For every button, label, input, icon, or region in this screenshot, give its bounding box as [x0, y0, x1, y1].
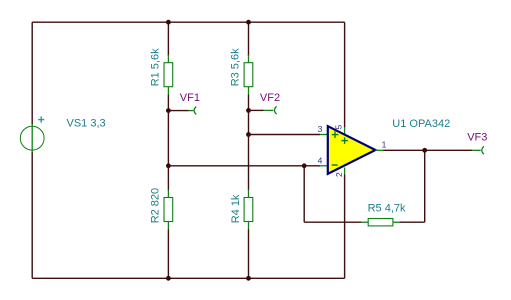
probe VF1 lead [189, 110, 194, 112]
probe VF2 lead [264, 109, 274, 111]
wire feedback bottom to R5 [304, 221, 361, 223]
resistor R4 [244, 190, 253, 230]
wire inverting input (pin 4) [168, 165, 320, 167]
svg-text:VF2: VF2 [260, 92, 280, 104]
wire feedback vertical [303, 166, 305, 222]
wire node VF1 down to inverting tap [167, 111, 169, 166]
op-amp pin 3 lead [320, 134, 328, 136]
wire R2 bottom to bottom rail [167, 230, 169, 279]
svg-text:R2 820: R2 820 [150, 188, 162, 223]
probe VF2 wire [249, 109, 264, 111]
wire negative supply (pin 2) [344, 175, 346, 279]
wire bottom rail [32, 277, 344, 279]
wire node VF2 down to noninverting tap [248, 110, 250, 134]
probe VF1 tip [194, 107, 196, 115]
wire left rail lower [31, 152, 33, 278]
VS1 plus polarity mark [38, 117, 44, 123]
probe VF3 lead [472, 149, 481, 151]
wire tap to R2 [167, 166, 169, 190]
wire R1 bottom to node VF1 [167, 95, 169, 111]
wire left rail upper [31, 22, 33, 124]
op-amp pin 5 lead [344, 127, 346, 136]
svg-text:R4 1k: R4 1k [230, 194, 242, 223]
probe VF2 tip [275, 106, 277, 114]
op-amp pin 4 lead [320, 165, 328, 167]
wire R4 bottom to bottom rail [248, 230, 250, 279]
op-amp U1 [328, 126, 376, 174]
node VF2 junction [246, 108, 251, 113]
probe VF3 tip [482, 146, 484, 154]
wire R5 to output riser [400, 221, 425, 223]
wire R1 branch top [167, 22, 169, 56]
svg-text:R3 5,6k: R3 5,6k [230, 48, 242, 86]
svg-text:4: 4 [318, 155, 323, 165]
wire output riser [424, 150, 426, 222]
svg-text:VS1 3,3: VS1 3,3 [67, 118, 106, 130]
wire noninverting input (pin 3) [249, 134, 321, 136]
resistor R3 [244, 55, 253, 95]
junction feedback tap [302, 163, 307, 168]
svg-text:1: 1 [382, 139, 387, 149]
wire tap to R4 [248, 135, 250, 191]
junction R3 top rail [246, 20, 251, 25]
node VF1 junction [166, 108, 171, 113]
wire R3 bottom to node VF2 [248, 95, 250, 111]
op-amp output lead (pin 1) [375, 149, 383, 151]
junction R4 bottom rail [246, 276, 251, 281]
op-amp supply plus mark [341, 137, 348, 144]
svg-text:VF3: VF3 [467, 132, 487, 144]
op-amp noninverting plus mark [332, 131, 339, 138]
svg-text:5: 5 [334, 125, 344, 130]
junction R2 bottom rail [166, 276, 171, 281]
resistor R5 [361, 219, 400, 226]
resistor R1 [164, 55, 173, 95]
junction at inverting tap [166, 163, 171, 168]
junction at noninverting tap [246, 132, 251, 137]
svg-text:3: 3 [318, 124, 323, 134]
wire R3 branch top [248, 22, 250, 56]
op-amp pin 2 lead [344, 168, 346, 175]
wire positive supply (pin 5) [344, 22, 346, 127]
voltage source VS1 [20, 124, 44, 152]
op-amp inverting minus mark [332, 164, 338, 166]
wire top rail [32, 21, 344, 23]
svg-text:2: 2 [334, 172, 344, 177]
svg-text:R5 4,7k: R5 4,7k [368, 203, 406, 215]
wire output [383, 149, 472, 151]
probe VF1 wire [168, 110, 188, 112]
svg-text:R1 5,6k: R1 5,6k [150, 48, 162, 86]
svg-text:VF1: VF1 [180, 92, 200, 104]
svg-text:U1 OPA342: U1 OPA342 [392, 118, 450, 130]
junction output node [422, 148, 427, 153]
resistor R2 [164, 190, 173, 230]
junction R1 top rail [166, 20, 171, 25]
